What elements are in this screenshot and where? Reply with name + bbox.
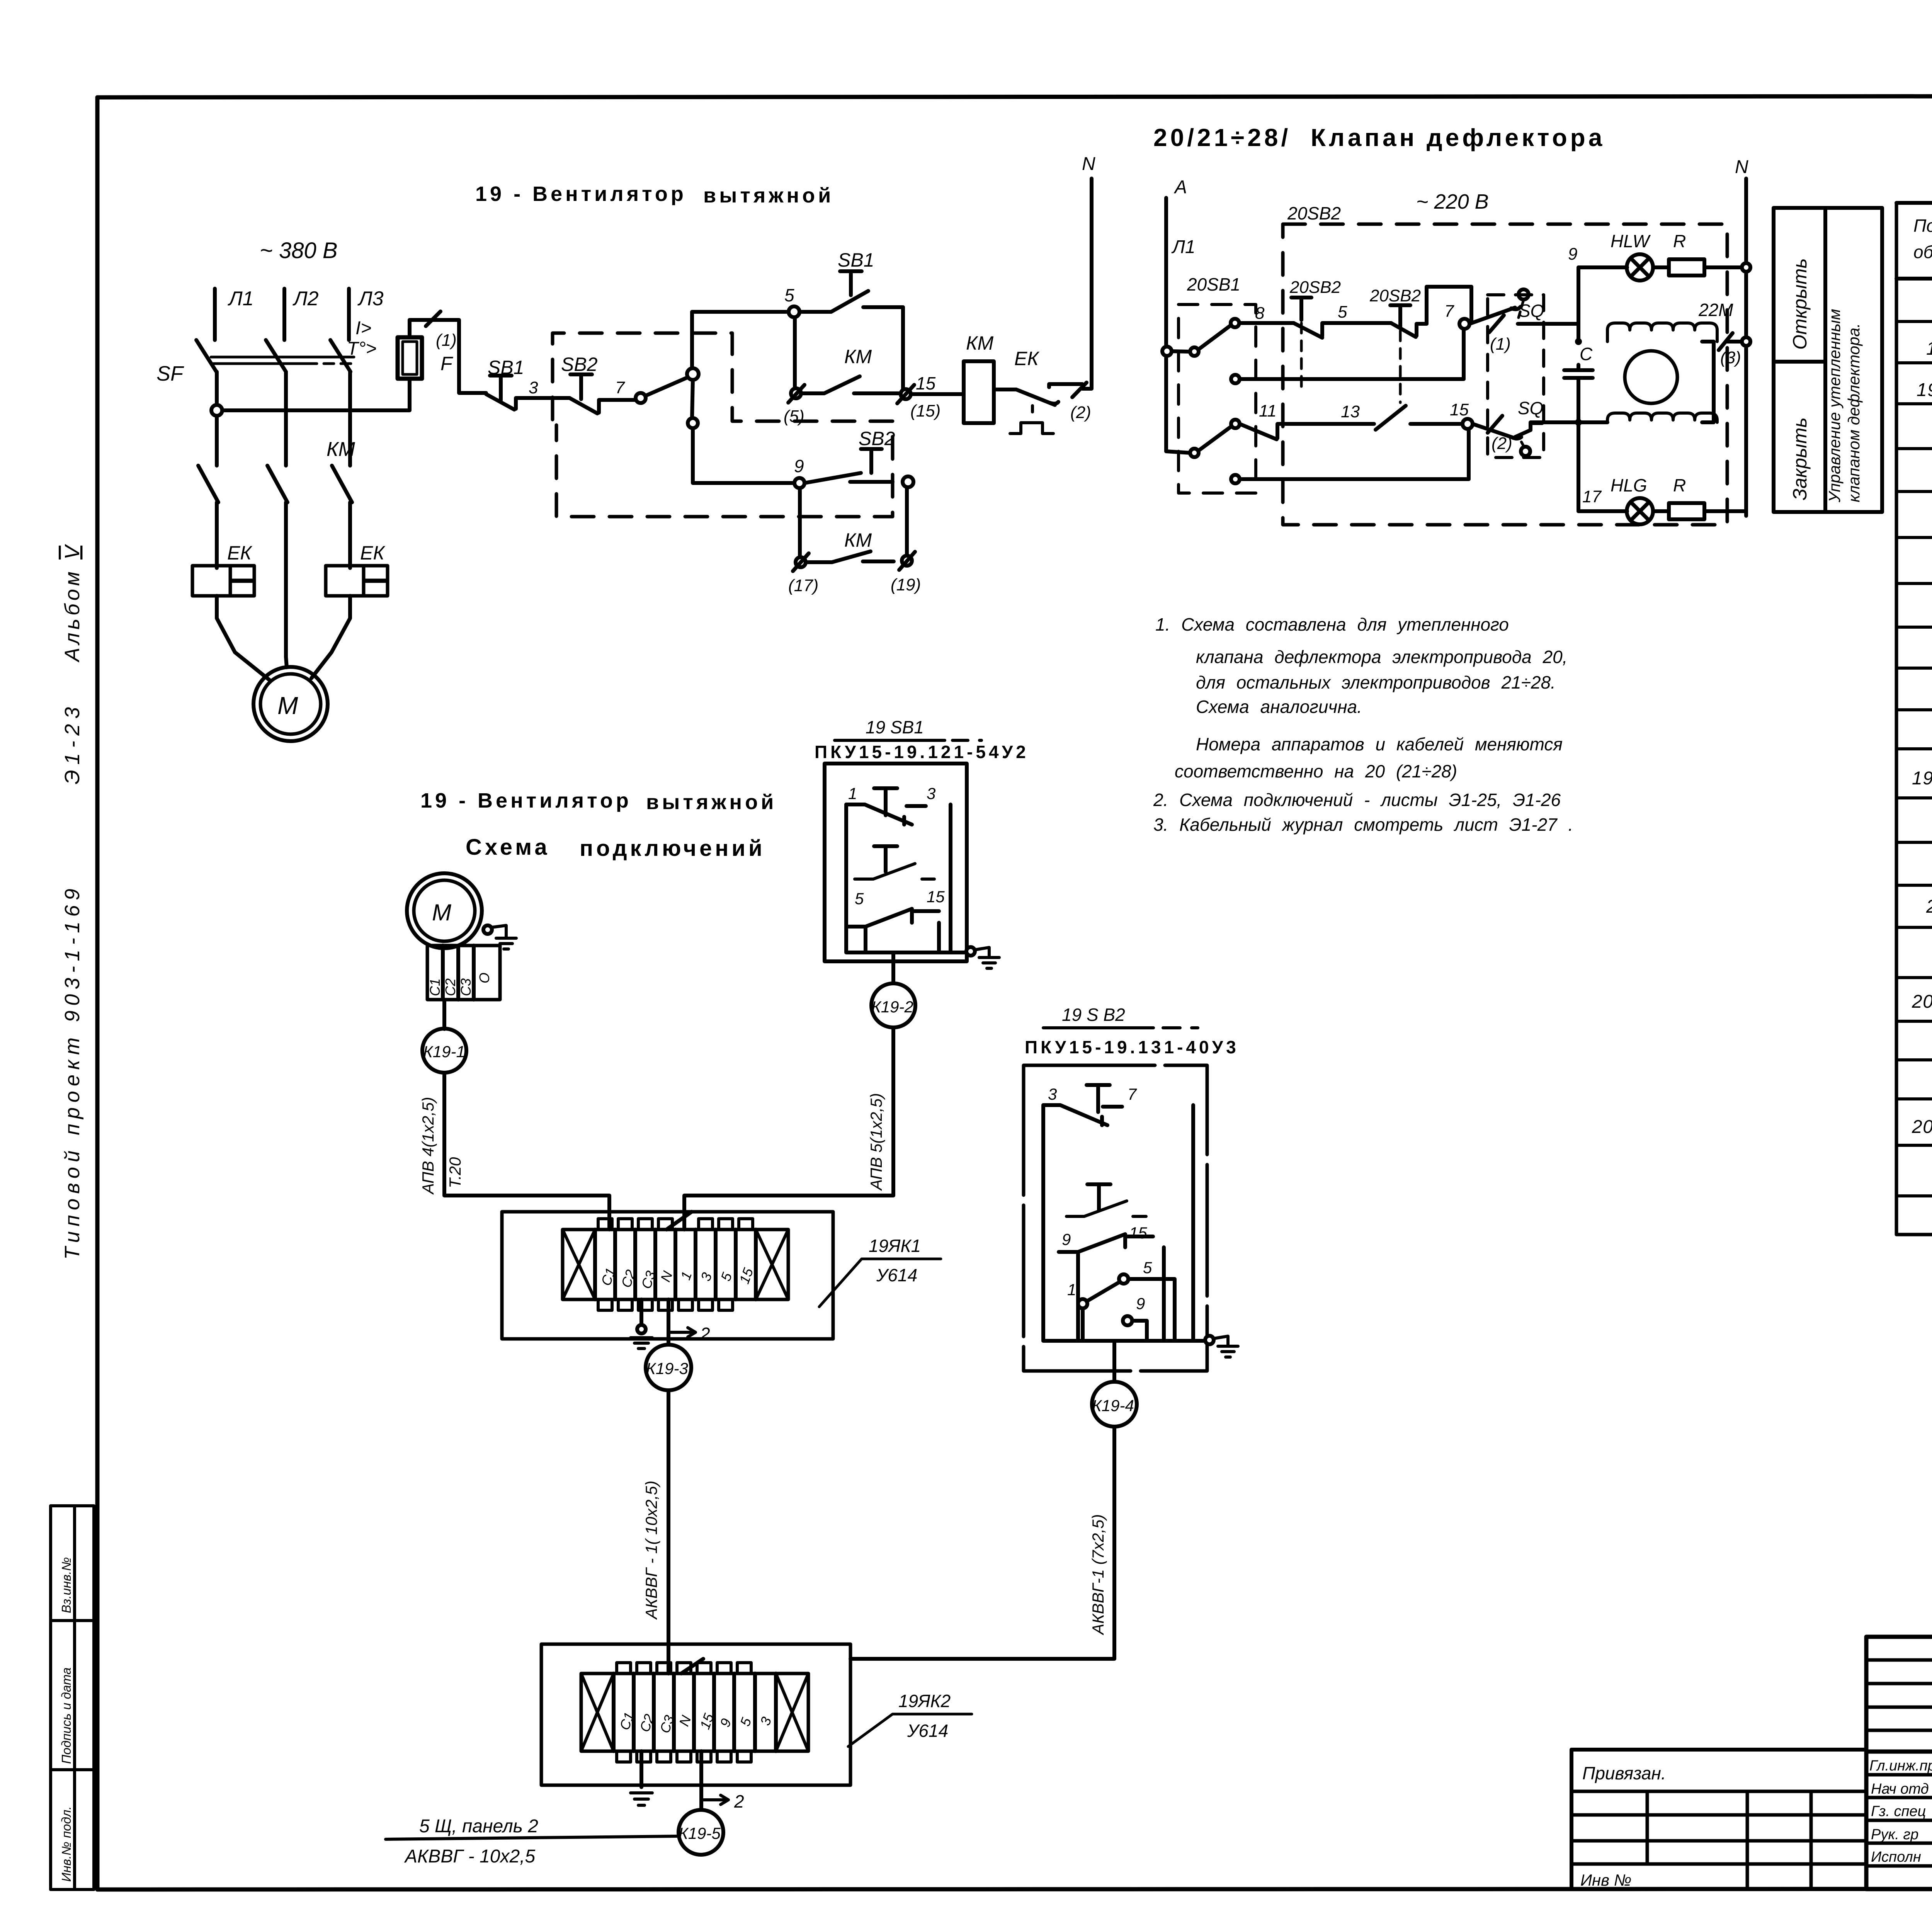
svg-text:5: 5	[855, 889, 864, 908]
svg-text:У614: У614	[876, 1265, 917, 1285]
svg-text:клапаном дефлектора.: клапаном дефлектора.	[1845, 323, 1863, 502]
table body texts	[1912, 294, 1932, 1187]
svg-text:подключений: подключений	[580, 836, 765, 861]
svg-text:SF: SF	[156, 362, 184, 385]
svg-text:(3): (3)	[1720, 348, 1741, 367]
direction box Открыть/Закрыть	[1774, 208, 1882, 512]
svg-text:8: 8	[1255, 304, 1265, 323]
svg-text:Э1-23: Э1-23	[61, 707, 84, 784]
contact btn2	[1391, 323, 1427, 337]
wire motor row right	[1702, 342, 1714, 422]
node on A	[1162, 347, 1172, 356]
bottom bus	[1043, 1339, 1207, 1343]
contactor KM pole 1	[198, 466, 218, 502]
wire node down to 9-branch	[692, 380, 693, 418]
svg-text:19ЯК2: 19ЯК2	[898, 1691, 951, 1711]
G_TABLE	[1896, 130, 1932, 1235]
svg-text:(5): (5)	[784, 407, 804, 426]
svg-text:20SВ2: 20SВ2	[1369, 286, 1421, 305]
wire K19-3 into strip	[667, 1644, 670, 1673]
svg-text:SQ: SQ	[1518, 398, 1543, 418]
thermal return symbol	[1010, 406, 1053, 434]
svg-text:Схема: Схема	[466, 835, 550, 860]
node (19) phase mark	[902, 556, 912, 566]
svg-text:К19-2: К19-2	[871, 998, 913, 1016]
svg-text:ПКУ15-19.131-40У3: ПКУ15-19.131-40У3	[1025, 1037, 1239, 1057]
svg-text:Нач отд: Нач отд	[1871, 1781, 1929, 1797]
svg-text:К19-3: К19-3	[646, 1359, 688, 1378]
button 20SB2-1	[1291, 298, 1311, 320]
svg-text:7: 7	[615, 378, 625, 397]
button contact 3-7	[1087, 1085, 1110, 1112]
svg-text:13: 13	[1341, 402, 1360, 421]
contact SB2	[570, 398, 636, 413]
cable marker K19-3	[646, 1345, 691, 1390]
contactor KM pole 3	[332, 466, 352, 502]
svg-text:(19): (19)	[891, 575, 921, 594]
contact 20SB1 upper	[1190, 347, 1199, 356]
svg-text:9: 9	[1136, 1294, 1145, 1313]
wire phase L2 mid	[284, 372, 288, 466]
G_SIDEBAR	[51, 544, 94, 1889]
svg-text:19ЯК1: 19ЯК1	[869, 1236, 921, 1256]
button contact 1-3	[874, 788, 897, 815]
wire phase L1 mid	[215, 372, 219, 466]
contact 9b	[1123, 1316, 1132, 1325]
svg-text:HLG: HLG	[1611, 475, 1647, 495]
svg-text:Схема аналогична.: Схема аналогична.	[1196, 697, 1362, 717]
svg-text:(15): (15)	[910, 401, 940, 420]
inner rails	[846, 804, 951, 952]
thermal element EK L3	[326, 566, 388, 596]
svg-text:2: 2	[734, 1791, 744, 1811]
left grid rows (upper empty)	[1866, 1658, 1932, 1662]
svg-text:Л1: Л1	[228, 287, 254, 310]
svg-text:для остальных электроприводо: для остальных электроприводов 21÷28.	[1196, 672, 1556, 692]
svg-text:(1): (1)	[1490, 335, 1511, 354]
svg-text:F: F	[440, 353, 453, 374]
breaker SF pole 1	[196, 340, 216, 372]
wire node5 down	[793, 317, 797, 388]
wire to K19-5 with arrow 2	[699, 1751, 703, 1810]
contact SB2 lower	[804, 473, 893, 483]
wire phase L3 mid	[348, 372, 352, 466]
svg-text:А: А	[1173, 177, 1187, 197]
dashed box 20SB1	[1179, 304, 1256, 493]
svg-text:5: 5	[1338, 303, 1347, 321]
wire control tap to fuse	[222, 380, 410, 410]
svg-text:Инв №: Инв №	[1580, 1871, 1631, 1889]
node (5) phase mark	[791, 388, 801, 398]
node lamp branch	[1575, 338, 1582, 345]
wire SQ2 to motor bottom	[1531, 420, 1607, 424]
svg-text:АПВ 4(1х2,5): АПВ 4(1х2,5)	[419, 1097, 437, 1195]
svg-text:19М: 19М	[1926, 338, 1932, 359]
svg-text:20М: 20М	[1926, 896, 1932, 917]
svg-text:С1: С1	[427, 978, 443, 996]
wire SQ1 to node	[1518, 324, 1578, 342]
button 20SB2-2	[1390, 305, 1410, 327]
cable marker K19-2	[871, 983, 915, 1027]
svg-text:19 SВ1: 19 SВ1	[866, 717, 924, 737]
svg-text:20SВ2: 20SВ2	[1912, 1117, 1932, 1137]
svg-text:С3: С3	[458, 978, 474, 996]
svg-text:17: 17	[1582, 487, 1602, 506]
svg-text:~ 220 В: ~ 220 В	[1416, 190, 1489, 213]
svg-text:9: 9	[794, 456, 804, 476]
20SB1 lower contacts	[1190, 449, 1199, 457]
bottom bus to ground	[951, 951, 967, 954]
node 7	[1459, 319, 1469, 329]
svg-text:1: 1	[1067, 1281, 1076, 1299]
svg-text:Позиц: Позиц	[1913, 216, 1932, 236]
svg-text:19SВ2: 19SВ2	[1912, 768, 1932, 789]
svg-text:~ 380 В: ~ 380 В	[260, 238, 338, 263]
svg-text:R: R	[1673, 231, 1686, 251]
svg-text:3. Кабельный журнал смотреть: 3. Кабельный журнал смотреть лист Э1-27 …	[1153, 815, 1573, 835]
teeth top	[617, 1663, 751, 1673]
svg-text:19 - Вентилятор: 19 - Вентилятор	[420, 789, 632, 812]
svg-text:3: 3	[1048, 1085, 1057, 1103]
wire row1	[1239, 321, 1294, 325]
contact 9-15	[1059, 1234, 1153, 1252]
motor winding bottom	[1607, 413, 1717, 422]
svg-text:20SВ1: 20SВ1	[1912, 992, 1932, 1012]
svg-text:SВ2: SВ2	[561, 354, 598, 375]
svg-text:15: 15	[1129, 1224, 1147, 1242]
svg-text:ЕК: ЕК	[1014, 348, 1039, 369]
wire seal right corner down	[902, 307, 903, 394]
wire up to lamp row	[1577, 267, 1580, 324]
motor M 19M	[253, 667, 328, 741]
contact btn1	[1294, 323, 1326, 338]
svg-text:КМ: КМ	[844, 346, 872, 367]
svg-text:N: N	[1735, 157, 1748, 177]
svg-text:К19-1: К19-1	[423, 1043, 465, 1061]
svg-text:20SВ2: 20SВ2	[1289, 278, 1341, 297]
G_POWER	[156, 182, 834, 741]
phase mark at fuse	[426, 311, 440, 326]
terminal teeth bottom	[598, 1299, 733, 1310]
wire EK1 to motor	[217, 596, 270, 681]
contact 1-5	[1119, 1274, 1128, 1284]
G_CONN	[386, 717, 1239, 1867]
selector contact to node	[636, 393, 646, 403]
wire to K19-1	[442, 1000, 446, 1029]
svg-text:С2: С2	[442, 978, 458, 996]
svg-text:1. Схема составлена для ут: 1. Схема составлена для утепленного	[1155, 614, 1509, 634]
header texts	[1913, 216, 1932, 262]
svg-text:N: N	[1082, 154, 1095, 174]
breaker linkage bar	[211, 356, 354, 359]
svg-text:Л1: Л1	[1171, 237, 1196, 257]
svg-text:дефлектора: дефлектора	[1427, 124, 1605, 151]
svg-text:КМ: КМ	[327, 438, 355, 461]
svg-text:SВ1: SВ1	[838, 249, 874, 271]
svg-text:SВ2: SВ2	[859, 428, 895, 449]
dashed enclosure (control station)	[553, 333, 893, 517]
svg-text:Привязан.: Привязан.	[1582, 1763, 1666, 1783]
svg-text:Л3: Л3	[357, 287, 384, 310]
wire node9 down to (17)	[798, 488, 802, 557]
terminal drops	[864, 927, 867, 952]
svg-text:22М: 22М	[1698, 300, 1733, 320]
SQ dashed enclosure	[1488, 295, 1544, 457]
20SB1 terminal 2	[1231, 375, 1240, 383]
G_VALVE	[1153, 124, 1882, 525]
svg-text:(1): (1)	[436, 331, 457, 350]
wire lamp row	[1578, 265, 1627, 269]
svg-text:(2): (2)	[1070, 403, 1091, 422]
svg-text:О: О	[476, 973, 492, 983]
wire to N	[1082, 179, 1092, 389]
wire to K19-4	[1112, 1341, 1116, 1382]
svg-text:ЕК: ЕК	[227, 542, 252, 564]
svg-text:7: 7	[1128, 1085, 1137, 1103]
svg-text:С: С	[1580, 344, 1593, 364]
wire phase L1 top	[213, 289, 217, 340]
svg-text:R: R	[1673, 475, 1686, 495]
svg-text:15: 15	[1450, 400, 1469, 419]
terminal teeth top	[598, 1219, 753, 1230]
contact SB1	[486, 394, 570, 410]
svg-text:вытяжной: вытяжной	[646, 791, 777, 814]
resistor R top	[1669, 259, 1704, 276]
svg-text:Закрыть: Закрыть	[1789, 417, 1811, 500]
row lines	[1896, 320, 1932, 323]
left attribute block	[51, 1506, 94, 1889]
svg-text:2. Схема подключений - листы: 2. Схема подключений - листы Э1-25, Э1-2…	[1153, 790, 1561, 810]
motor circle 20M	[1625, 351, 1677, 403]
svg-text:I>: I>	[355, 318, 371, 338]
svg-text:обозн: обозн	[1913, 242, 1932, 262]
svg-text:Л2: Л2	[293, 287, 319, 310]
svg-text:клапана дефлектора электропр: клапана дефлектора электропривода 20,	[1196, 647, 1567, 667]
svg-text:9: 9	[1062, 1230, 1071, 1248]
phase mark (2)	[1072, 383, 1087, 397]
wire fuse top to control chain	[410, 320, 486, 393]
wire EK2 to motor	[311, 596, 350, 678]
svg-text:М: М	[277, 692, 298, 719]
svg-text:Гл.инж.пр: Гл.инж.пр	[1869, 1758, 1932, 1774]
wire phase L3 top	[347, 289, 351, 340]
wire node15 to coil	[911, 392, 964, 396]
cable marker K19-4	[1092, 1382, 1137, 1427]
contact EK (NC thermal)	[994, 384, 1082, 405]
svg-text:Рук. гр: Рук. гр	[1871, 1827, 1918, 1843]
header row	[1896, 277, 1932, 281]
signature rows	[1866, 1773, 1932, 1777]
svg-text:5: 5	[1143, 1259, 1152, 1277]
wire A line	[1164, 198, 1168, 451]
svg-text:соответственно на 20 (21÷28): соответственно на 20 (21÷28)	[1175, 761, 1457, 781]
svg-text:3: 3	[529, 378, 538, 397]
svg-text:АКВВГ - 1( 10х2,5): АКВВГ - 1( 10х2,5)	[642, 1481, 660, 1620]
Привязан block	[1571, 1748, 1866, 1752]
wire jog over box edge	[1427, 287, 1471, 324]
node on L1 (control tap)	[211, 405, 222, 416]
svg-text:Управление утепленным: Управление утепленным	[1825, 309, 1844, 503]
inner rails	[1043, 1105, 1193, 1341]
breaker SF pole 2	[266, 340, 286, 372]
contact SB1 seal	[799, 291, 903, 312]
lamp HLW	[1627, 254, 1653, 281]
wire phase L2 top	[282, 289, 286, 340]
svg-text:Инв.№ подл.: Инв.№ подл.	[59, 1806, 73, 1882]
button SB2	[570, 374, 592, 399]
node 15	[1463, 419, 1473, 429]
svg-text:К19-4: К19-4	[1092, 1396, 1134, 1415]
big dashed box 20SB2	[1283, 224, 1727, 525]
20SB1 terminal 4	[1231, 475, 1240, 483]
wire down to (19)	[905, 487, 909, 556]
node 15 phase mark	[901, 389, 911, 399]
svg-text:5 Щ, панель 2: 5 Щ, панель 2	[419, 1816, 538, 1837]
svg-text:15: 15	[916, 373, 936, 393]
node (17) phase mark	[796, 557, 806, 567]
button SB1 seal	[840, 271, 862, 295]
table outline	[1896, 201, 1932, 205]
svg-text:3: 3	[927, 784, 935, 803]
wire node up to seal line	[692, 312, 789, 368]
svg-text:11: 11	[1259, 401, 1277, 420]
svg-text:ЕК: ЕК	[360, 542, 385, 564]
G_CONTROL	[486, 154, 1095, 595]
ground at motor	[483, 925, 492, 934]
svg-text:АКВВГ - 10х2,5: АКВВГ - 10х2,5	[404, 1846, 536, 1867]
teeth bottom	[617, 1751, 751, 1762]
button SB2 lower	[861, 449, 882, 473]
svg-text:HLW: HLW	[1611, 231, 1651, 251]
mid contact	[1087, 1184, 1111, 1210]
wire L2 lower	[284, 502, 288, 657]
svg-text:20SВ1: 20SВ1	[1187, 274, 1240, 294]
svg-text:Т.20: Т.20	[446, 1157, 464, 1188]
SQ roller circle	[1519, 289, 1529, 299]
resistor R bottom	[1669, 503, 1704, 519]
wire K19-4 down to 19ЯК2	[850, 1427, 1114, 1659]
svg-text:АПВ 5(1х2,5): АПВ 5(1х2,5)	[867, 1093, 885, 1191]
phase mark (3)	[1719, 333, 1733, 350]
svg-text:Клапан: Клапан	[1311, 124, 1417, 151]
diagonal jumper	[681, 1659, 703, 1673]
motor terminal box C1 C2 C3 0	[427, 946, 500, 1000]
svg-text:Подпись и дата: Подпись и дата	[59, 1667, 73, 1764]
svg-text:7: 7	[1444, 302, 1454, 321]
svg-text:М: М	[432, 900, 451, 925]
svg-text:Открыть: Открыть	[1789, 258, 1811, 350]
node 9	[794, 478, 804, 488]
wire row3	[1285, 422, 1374, 426]
wire to K19-3 with arrow 2	[667, 1299, 670, 1345]
node (KM seal-in junction)	[687, 368, 699, 380]
svg-text:Вз.инв.№: Вз.инв.№	[59, 1557, 73, 1613]
ground from 19ЯК1	[639, 1299, 643, 1325]
thermal element EK L1	[192, 566, 254, 596]
motor winding top 22M	[1607, 323, 1717, 342]
cable marker K19-5	[679, 1810, 723, 1855]
title block outline	[1866, 1637, 1932, 1889]
motor M	[407, 873, 482, 948]
svg-text:Гз. спец: Гз. спец	[1871, 1803, 1926, 1820]
svg-text:АКВВГ-1 (7х2,5): АКВВГ-1 (7х2,5)	[1089, 1514, 1107, 1636]
svg-text:5: 5	[784, 285, 794, 305]
svg-text:К19-5: К19-5	[679, 1824, 721, 1842]
button SB1	[490, 376, 512, 400]
node 5	[789, 306, 799, 317]
coil KM	[964, 361, 994, 423]
G_TITLEBLOCK	[1571, 1637, 1932, 1891]
svg-text:2: 2	[700, 1324, 710, 1344]
contact KM aux	[801, 376, 903, 393]
box 19SB2	[1024, 1065, 1207, 1371]
terminal box 19ЯК1	[502, 1212, 833, 1339]
svg-text:ПКУ15-19.121-54У2: ПКУ15-19.121-54У2	[815, 742, 1029, 762]
svg-text:19 S В2: 19 S В2	[1062, 1005, 1125, 1025]
mid contact	[874, 846, 897, 872]
wire K19-2 down	[684, 1027, 893, 1230]
contactor KM pole 2	[267, 466, 287, 502]
wire N line	[1744, 179, 1748, 516]
signature labels	[1869, 1756, 1932, 1865]
wire L3 lower	[348, 502, 352, 568]
page border	[97, 96, 1932, 97]
svg-text:9: 9	[1568, 245, 1577, 264]
contact 11-13	[1240, 424, 1285, 439]
ground from 19ЯК2	[639, 1751, 643, 1787]
svg-text:КМ: КМ	[844, 529, 872, 551]
wire L2 to motor	[286, 657, 287, 667]
wire L1 lower	[215, 502, 219, 568]
svg-text:(17): (17)	[788, 576, 818, 595]
box 19SB1	[825, 764, 967, 961]
cable marker K19-1	[422, 1029, 466, 1073]
node right of SB2 lower	[903, 476, 913, 487]
contact 5-15	[846, 909, 939, 927]
contact SQ2	[1488, 416, 1502, 433]
svg-text:19SВ1: 19SВ1	[1917, 380, 1932, 400]
wire K19-3 down	[667, 1390, 670, 1673]
contact 13 blade	[1376, 406, 1406, 430]
G_NOTES	[1153, 614, 1573, 835]
svg-text:19 - Вентилятор: 19 - Вентилятор	[475, 182, 687, 206]
svg-text:У614: У614	[907, 1721, 948, 1741]
terminal box 19ЯК2	[541, 1644, 850, 1785]
svg-text:(2): (2)	[1492, 434, 1512, 453]
breaker SF pole 3	[330, 340, 350, 372]
svg-text:Номера аппаратов и кабелей: Номера аппаратов и кабелей меняются	[1196, 734, 1563, 754]
wire row1b	[1326, 321, 1391, 325]
wire box to K19-2	[891, 952, 895, 983]
grid below	[1646, 1791, 1649, 1864]
svg-text:вытяжной: вытяжной	[703, 184, 834, 207]
lamp HLG	[1627, 498, 1653, 524]
contact KM lower	[806, 551, 894, 562]
svg-text:20/21÷28/: 20/21÷28/	[1153, 124, 1291, 151]
fuse F	[398, 337, 422, 379]
diagonal jumper inside	[667, 1212, 692, 1230]
wire HLG branch	[1577, 422, 1580, 511]
svg-text:КМ: КМ	[966, 332, 993, 354]
svg-text:20SВ2: 20SВ2	[1287, 203, 1341, 223]
svg-text:Исполн: Исполн	[1871, 1849, 1921, 1865]
svg-text:15: 15	[927, 888, 945, 906]
wire K19-1 down	[444, 1073, 609, 1230]
svg-text:1: 1	[848, 784, 857, 803]
contact SQ1	[1489, 315, 1504, 332]
